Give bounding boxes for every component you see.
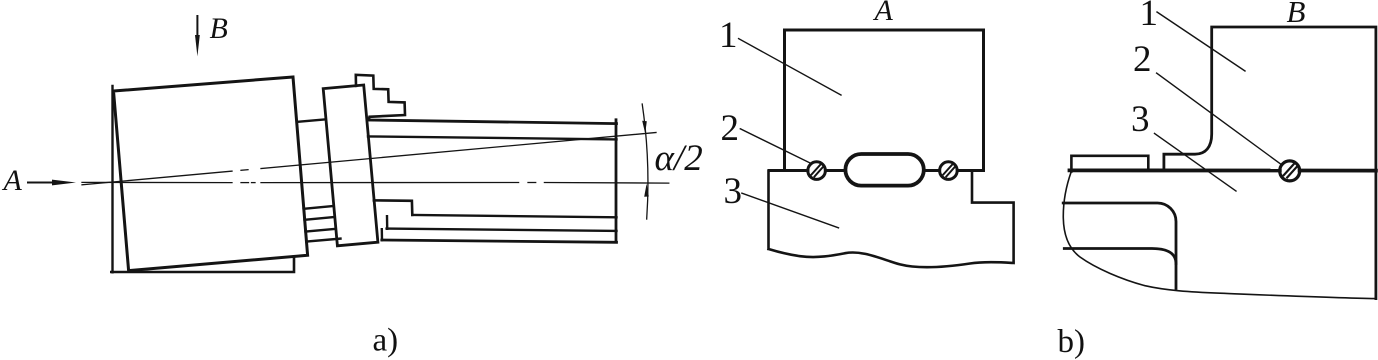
joint line of view A — [770, 169, 984, 172]
bar shoulder 2 — [386, 216, 389, 229]
pin circle hatch of view B — [1284, 164, 1297, 178]
arrow B — [195, 16, 200, 56]
part 3 block of view B — [1063, 172, 1376, 299]
svg-text:1: 1 — [1140, 0, 1159, 34]
leader 1 of view A — [739, 39, 841, 95]
arc arrowhead top — [642, 121, 647, 134]
svg-text:b): b) — [1058, 324, 1086, 360]
svg-text:3: 3 — [724, 171, 743, 212]
arc arrowhead bottom — [644, 184, 649, 197]
svg-text:α/2: α/2 — [655, 138, 703, 179]
leader 2 of view A — [740, 129, 810, 163]
svg-text:a): a) — [373, 323, 399, 359]
svg-text:A: A — [2, 164, 23, 197]
leader 3 of view B — [1155, 133, 1237, 191]
part 3 inner step line 1 of view B — [1063, 203, 1176, 289]
pin circle right — [940, 162, 958, 180]
svg-text:2: 2 — [721, 108, 740, 149]
angle dimension arc — [642, 104, 648, 219]
svg-text:1: 1 — [719, 15, 738, 56]
chuck bottom jaw — [374, 200, 412, 215]
spindle step lines — [304, 206, 341, 241]
test bar right edge — [615, 120, 618, 242]
svg-text:3: 3 — [1131, 99, 1150, 140]
test bar bottom line 2 — [387, 229, 617, 231]
pin circle left hatch — [812, 165, 823, 177]
svg-text:B: B — [210, 12, 228, 45]
horizontal center line — [82, 181, 669, 184]
slot stadium — [845, 154, 923, 186]
spindle top line — [298, 119, 326, 121]
test bar bottom line 1 — [412, 215, 616, 217]
test bar second top line — [368, 136, 617, 139]
leader 3 of view A — [742, 193, 839, 228]
chuck flange — [323, 85, 378, 246]
bar shoulder 3 — [381, 229, 384, 240]
leader 2 of view B — [1157, 73, 1282, 165]
part 1 block of view B — [1164, 27, 1376, 299]
svg-text:2: 2 — [1133, 39, 1152, 80]
test bar top line — [368, 120, 617, 124]
joint line of view B — [1070, 168, 1376, 172]
part 3 inner step line 2 of view B — [1064, 249, 1176, 264]
part 3 block of view A — [769, 171, 1014, 268]
pin circle left — [808, 162, 826, 180]
pin circle of view B — [1280, 161, 1300, 181]
chuck top jaw — [356, 75, 405, 120]
strip on part 3 of view B — [1071, 156, 1148, 172]
leader 1 of view B — [1157, 12, 1245, 71]
part 1 block of view A — [785, 30, 984, 170]
headstock original position left edge — [111, 86, 113, 272]
svg-text:A: A — [873, 0, 894, 27]
test bar bottom edge — [382, 240, 617, 242]
svg-text:B: B — [1287, 0, 1306, 29]
tilted spindle axis line — [82, 133, 656, 185]
pin circle right hatch — [943, 165, 954, 177]
arrow A — [28, 180, 76, 186]
headstock box tilted — [114, 77, 308, 271]
headstock original position bottom edge — [111, 257, 294, 272]
